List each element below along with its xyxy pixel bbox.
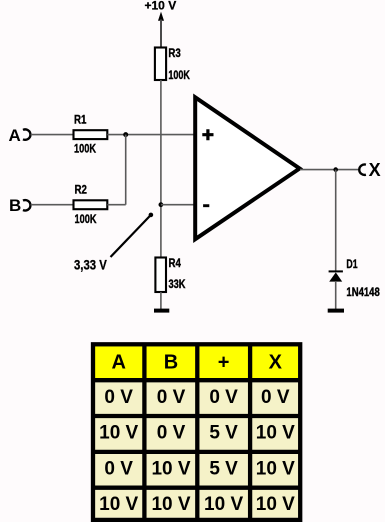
- svg-text:100K: 100K: [74, 141, 96, 155]
- node 3.33V pointer: [111, 213, 154, 257]
- svg-text:100K: 100K: [75, 212, 97, 226]
- svg-text:10 V: 10 V: [99, 423, 138, 444]
- resistor R4: [155, 258, 166, 293]
- truth table: [93, 344, 300, 520]
- row 2: [99, 423, 295, 444]
- wire D1 to ground: [335, 281, 337, 309]
- svg-text:R4: R4: [169, 256, 182, 270]
- svg-text:10 V: 10 V: [151, 494, 190, 515]
- svg-text:5 V: 5 V: [209, 458, 238, 479]
- row 4: [99, 494, 295, 515]
- wire op-amp output: [300, 169, 359, 171]
- wire R3 to node M: [160, 80, 162, 205]
- ground (D1): [328, 309, 344, 313]
- svg-text:B: B: [9, 196, 21, 215]
- svg-text:B: B: [164, 352, 178, 374]
- svg-text:0 V: 0 V: [261, 387, 290, 408]
- table grid: [93, 344, 300, 520]
- wire node X to diode D1: [335, 170, 337, 271]
- svg-text:R1: R1: [74, 113, 87, 127]
- op-amp - symbol: [203, 204, 209, 207]
- node X junction: [333, 167, 338, 172]
- connector B: [23, 200, 30, 210]
- header row fill: [95, 346, 298, 378]
- svg-text:A: A: [111, 352, 125, 374]
- resistor R3: [155, 48, 166, 81]
- svg-text:1N4148: 1N4148: [346, 285, 380, 299]
- svg-text:+: +: [218, 352, 230, 374]
- connector A: [23, 129, 30, 139]
- svg-text:0 V: 0 V: [157, 423, 186, 444]
- svg-text:3,33 V: 3,33 V: [74, 256, 107, 272]
- svg-text:10 V: 10 V: [99, 494, 138, 515]
- svg-text:0 V: 0 V: [209, 387, 238, 408]
- svg-text:33K: 33K: [169, 277, 186, 291]
- svg-text:5 V: 5 V: [209, 423, 238, 444]
- wire node M to R4: [160, 205, 162, 258]
- svg-text:+10 V: +10 V: [145, 0, 177, 12]
- svg-text:100K: 100K: [168, 68, 190, 82]
- op-amp + symbol: [202, 129, 213, 140]
- svg-text:R2: R2: [75, 183, 88, 197]
- row 1: [104, 387, 289, 408]
- node P junction: [123, 132, 128, 137]
- op-amp U1: [195, 97, 299, 239]
- svg-text:X: X: [269, 352, 283, 374]
- wire A to R1: [31, 134, 74, 136]
- svg-text:10 V: 10 V: [256, 494, 295, 515]
- svg-text:D1: D1: [346, 257, 357, 271]
- svg-text:0 V: 0 V: [104, 387, 133, 408]
- wire +10V arrow to R3: [160, 20, 162, 48]
- wire R4 to ground: [160, 292, 162, 309]
- wire R2 to node P riser: [107, 204, 125, 206]
- connector X: [359, 165, 366, 175]
- resistor R2: [74, 200, 108, 209]
- diode D1: [329, 270, 343, 281]
- svg-text:10 V: 10 V: [256, 458, 295, 479]
- power arrow: [158, 12, 164, 21]
- svg-text:10 V: 10 V: [151, 458, 190, 479]
- svg-text:0 V: 0 V: [104, 458, 133, 479]
- row 3: [104, 458, 295, 479]
- ground (R4): [154, 309, 169, 313]
- svg-text:R3: R3: [168, 46, 181, 60]
- wire node M to op-amp - input: [161, 204, 194, 206]
- wire R1 to op-amp + input: [107, 134, 194, 136]
- svg-text:10 V: 10 V: [204, 494, 243, 515]
- node M junction: [159, 202, 164, 207]
- wire B to R2: [31, 204, 74, 206]
- svg-text:10 V: 10 V: [256, 423, 295, 444]
- svg-text:0 V: 0 V: [157, 387, 186, 408]
- resistor R1: [74, 130, 108, 139]
- svg-text:A: A: [9, 126, 21, 145]
- svg-text:X: X: [369, 160, 381, 180]
- data rows fill: [95, 382, 298, 518]
- wire node P down to R2 output: [125, 135, 127, 205]
